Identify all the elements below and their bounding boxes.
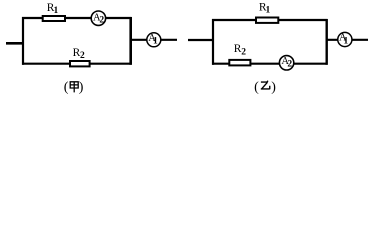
label R1 (right circuit) (259, 2, 271, 16)
svg-text:1: 1 (266, 6, 271, 16)
resistor R2 (left circuit) (70, 61, 90, 66)
svg-text:1: 1 (54, 6, 59, 16)
svg-text:2: 2 (80, 51, 85, 61)
wire: left terminal stub of circuit 甲 (6, 42, 24, 45)
resistor R1 (left circuit) (43, 16, 65, 21)
wire: top branch of loop 乙 (212, 19, 328, 21)
wire: top branch of loop 甲 (22, 17, 132, 19)
wire: left terminal stub of circuit 乙 (188, 39, 214, 41)
wire: right vertical side of loop 乙 (326, 19, 328, 65)
wire: bottom branch of loop 乙 (212, 63, 328, 65)
resistor R2 (right circuit) (229, 60, 250, 66)
svg-text:): ) (79, 80, 84, 95)
svg-text:1: 1 (344, 36, 349, 46)
label (乙) caption of right circuit (254, 80, 276, 95)
wire: branch to ammeter A1 and right terminal stub of 乙 (327, 39, 368, 41)
wire: branch to ammeter A1 and right terminal stub of 甲 (131, 39, 177, 41)
svg-text:1: 1 (153, 37, 158, 47)
wire: right vertical side of loop 甲 (129, 17, 132, 65)
ammeter A1 (left circuit) (147, 33, 161, 47)
wire: left vertical side of loop 甲 (22, 17, 24, 65)
svg-text:2: 2 (99, 16, 104, 26)
ammeter A1 (right circuit) (338, 32, 352, 46)
svg-text:(: ( (254, 80, 259, 95)
svg-text:2: 2 (241, 47, 246, 57)
resistor R1 (right circuit) (256, 18, 278, 23)
ammeter A2 (left circuit) (91, 11, 105, 25)
label (甲) caption of left circuit (64, 80, 84, 95)
wire: bottom branch of loop 甲 (22, 63, 132, 65)
ammeter A2 (right circuit) (279, 56, 293, 70)
label R2 (right circuit) (234, 43, 247, 57)
label R2 (left circuit) (73, 47, 85, 61)
svg-text:2: 2 (287, 59, 292, 69)
label R1 (left circuit) (47, 2, 59, 16)
svg-text:(: ( (64, 80, 69, 95)
wire: left vertical side of loop 乙 (212, 19, 214, 65)
svg-text:): ) (271, 80, 276, 95)
